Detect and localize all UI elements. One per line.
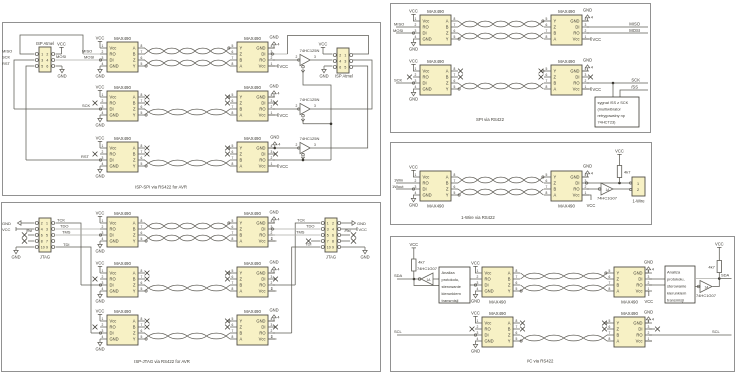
- no-connect J4.8: [28, 240, 34, 242]
- svg-text:Y: Y: [508, 289, 511, 294]
- IC U9 MAX490 (right-side transceiver): [542, 9, 589, 45]
- svg-text:B: B: [133, 152, 136, 157]
- svg-text:5: 5: [454, 85, 456, 89]
- svg-text:8: 8: [232, 162, 234, 166]
- svg-text:4: 4: [277, 91, 279, 95]
- svg-text:MAX490: MAX490: [114, 261, 131, 266]
- svg-text:Y: Y: [240, 221, 243, 226]
- no-connect U4.Z: [225, 101, 230, 106]
- svg-text:Vcc: Vcc: [259, 289, 266, 294]
- VCC symbol U12: [411, 170, 415, 177]
- ground (above right MAX490): [582, 70, 588, 72]
- ground above U23: [645, 272, 649, 274]
- svg-text:VCC: VCC: [280, 64, 289, 69]
- svg-text:5: 5: [46, 234, 48, 238]
- svg-text:2: 2: [415, 179, 417, 183]
- svg-text:GND: GND: [2, 221, 11, 226]
- junction SDA pull-up: [413, 278, 416, 281]
- IC U3 MAX490 (left-side transceiver): [100, 85, 147, 121]
- IC U23 MAX490 (right-side transceiver): [605, 267, 652, 305]
- wire SCK junction into note box: [612, 83, 614, 97]
- svg-text:SCL: SCL: [712, 329, 721, 334]
- svg-text:GND: GND: [269, 84, 278, 89]
- svg-text:4: 4: [277, 217, 279, 221]
- svg-text:GND: GND: [423, 193, 432, 198]
- svg-text:MISO: MISO: [394, 22, 404, 27]
- svg-text:3: 3: [271, 99, 273, 103]
- IC U5 MAX490 (left-side transceiver): [100, 136, 147, 172]
- ground at J2 pin6: [324, 65, 332, 67]
- svg-text:1: 1: [102, 317, 104, 321]
- ground (above right MAX490): [268, 320, 274, 322]
- wire box to U22.RO: [470, 278, 475, 280]
- svg-text:SCK: SCK: [631, 77, 640, 82]
- svg-text:1: 1: [271, 162, 273, 166]
- svg-text:RO: RO: [423, 75, 429, 80]
- svg-text:B: B: [240, 158, 243, 163]
- svg-text:/Rst: /Rst: [26, 229, 32, 233]
- svg-text:Y: Y: [133, 289, 136, 294]
- no-connect U6.Y: [225, 146, 230, 151]
- buffer U7C 74HC125N: [296, 136, 320, 156]
- svg-text:GND: GND: [570, 69, 579, 74]
- svg-text:7: 7: [454, 179, 456, 183]
- VCC tick at right MAX490 pin1: [268, 114, 278, 116]
- svg-text:5: 5: [232, 269, 234, 273]
- svg-text:MAX490: MAX490: [114, 85, 131, 90]
- svg-text:Vcc: Vcc: [110, 271, 117, 276]
- svg-text:TDO: TDO: [306, 223, 314, 228]
- VCC symbol above R1: [619, 161, 621, 166]
- svg-text:7: 7: [609, 281, 611, 285]
- svg-text:5: 5: [141, 287, 143, 291]
- svg-text:1: 1: [477, 269, 479, 273]
- svg-text:4: 4: [339, 60, 341, 64]
- svg-text:6: 6: [141, 329, 143, 333]
- svg-text:MAX490: MAX490: [244, 136, 261, 141]
- svg-text:8: 8: [141, 44, 143, 48]
- svg-text:VCC: VCC: [409, 9, 418, 14]
- VCC tick right chip: [582, 38, 591, 40]
- svg-text:GND: GND: [633, 271, 642, 276]
- wire TDI U20.RO to J5.9: [273, 332, 292, 334]
- svg-text:7: 7: [232, 281, 234, 285]
- svg-text:B: B: [554, 187, 557, 192]
- svg-text:GND: GND: [110, 64, 119, 69]
- svg-text:4: 4: [591, 171, 593, 175]
- buffer U21 74HC1G07: [417, 266, 438, 285]
- no-connect U26.DI: [649, 328, 655, 330]
- svg-text:VCC: VCC: [319, 42, 328, 47]
- svg-text:ISP-SPI via RS422 for AVR: ISP-SPI via RS422 for AVR: [135, 185, 187, 190]
- svg-text:1: 1: [648, 287, 650, 291]
- connector J4 JTAG 10-pin: [35, 218, 55, 252]
- VCC symbol: [411, 14, 415, 21]
- IC U25 MAX490 (left-side transceiver): [475, 311, 522, 347]
- IC U6 MAX490 (right-side transceiver): [228, 136, 275, 172]
- junction SDA right: [718, 277, 721, 280]
- svg-text:7: 7: [546, 29, 548, 33]
- svg-text:GND: GND: [269, 308, 278, 313]
- svg-text:4k7: 4k7: [708, 265, 715, 270]
- svg-text:GND: GND: [471, 349, 480, 354]
- svg-text:4: 4: [477, 337, 479, 341]
- svg-text:5: 5: [141, 237, 143, 241]
- svg-text:A: A: [133, 146, 136, 151]
- ground at J5 pin10: [341, 246, 365, 248]
- svg-text:1: 1: [344, 54, 346, 58]
- wire box to U22.DI: [470, 284, 475, 286]
- svg-text:GND: GND: [256, 319, 265, 324]
- svg-text:Y: Y: [133, 337, 136, 342]
- svg-text:2: 2: [102, 225, 104, 229]
- svg-text:4: 4: [102, 287, 104, 291]
- VCC symbol: [411, 64, 415, 71]
- svg-text:DI: DI: [423, 31, 427, 36]
- svg-text:A: A: [554, 37, 557, 42]
- junction on GND/buffer input net: [274, 147, 277, 150]
- svg-text:4: 4: [332, 228, 334, 232]
- svg-text:9: 9: [332, 246, 334, 250]
- svg-text:5: 5: [232, 317, 234, 321]
- svg-text:1-Wire via RS422: 1-Wire via RS422: [461, 215, 495, 220]
- svg-text:B: B: [240, 283, 243, 288]
- svg-text:DI: DI: [638, 277, 642, 282]
- svg-text:4: 4: [277, 315, 279, 319]
- wire MISO to U8.RO: [396, 26, 413, 28]
- svg-text:6: 6: [141, 105, 143, 109]
- svg-text:74HC125N: 74HC125N: [300, 136, 320, 141]
- svg-text:B: B: [508, 327, 511, 332]
- svg-text:A: A: [554, 87, 557, 92]
- svg-text:MOSI: MOSI: [393, 28, 403, 33]
- svg-text:1: 1: [46, 222, 48, 226]
- svg-text:2: 2: [415, 73, 417, 77]
- svg-text:6: 6: [232, 323, 234, 327]
- no-connect right chip DI: [273, 325, 278, 330]
- svg-text:1: 1: [102, 93, 104, 97]
- svg-text:GND: GND: [423, 87, 432, 92]
- svg-text:RO: RO: [573, 81, 579, 86]
- svg-text:4: 4: [102, 237, 104, 241]
- IC U13 MAX490 (right-side transceiver): [542, 171, 589, 209]
- svg-text:4: 4: [277, 42, 279, 46]
- svg-text:6: 6: [609, 275, 611, 279]
- svg-text:ISP-JTAG via RS422 for AVR: ISP-JTAG via RS422 for AVR: [134, 359, 190, 364]
- svg-text:sygnał /SS z SCK: sygnał /SS z SCK: [598, 100, 629, 105]
- svg-text:6: 6: [332, 234, 334, 238]
- wire SCL to U25.DI: [397, 334, 475, 336]
- wire SCK right U11.RO: [587, 82, 648, 84]
- svg-text:MAX490: MAX490: [621, 300, 638, 305]
- svg-text:4: 4: [102, 162, 104, 166]
- svg-text:1: 1: [477, 319, 479, 323]
- svg-text:GND: GND: [256, 95, 265, 100]
- svg-text:6: 6: [546, 73, 548, 77]
- svg-text:4: 4: [477, 287, 479, 291]
- svg-text:SCK: SCK: [82, 103, 91, 108]
- svg-text:B: B: [446, 75, 449, 80]
- svg-text:6: 6: [232, 150, 234, 154]
- svg-text:TCK: TCK: [57, 217, 65, 222]
- svg-text:1: 1: [415, 67, 417, 71]
- wire U23.DI to right box: [649, 278, 665, 280]
- IC U22 MAX490 (left-side transceiver): [475, 267, 522, 305]
- svg-text:A: A: [133, 46, 136, 51]
- wire MOSI J1.4 to U1.DI: [56, 59, 100, 61]
- svg-text:Vcc: Vcc: [636, 289, 643, 294]
- svg-text:10: 10: [41, 246, 45, 250]
- svg-text:Y: Y: [240, 319, 243, 324]
- no-connect right chip Y: [225, 319, 230, 324]
- svg-text:7: 7: [141, 323, 143, 327]
- svg-text:/SS: /SS: [631, 84, 638, 89]
- IC U16 MAX490 (right-side transceiver): [228, 211, 275, 247]
- panel: SPI via RS422 (border): [391, 4, 651, 133]
- svg-text:2: 2: [296, 104, 298, 108]
- svg-text:MAX490: MAX490: [427, 204, 444, 209]
- svg-text:TDO: TDO: [60, 223, 68, 228]
- wire MISO right U9.DI: [587, 26, 648, 28]
- svg-text:7: 7: [546, 79, 548, 83]
- svg-text:6: 6: [141, 281, 143, 285]
- connector J3 1-Wire: [629, 177, 645, 204]
- svg-text:Vcc: Vcc: [485, 321, 492, 326]
- svg-text:5: 5: [546, 173, 548, 177]
- no-connect left chip B: [145, 277, 150, 282]
- svg-text:8: 8: [232, 111, 234, 115]
- svg-text:MAX490: MAX490: [244, 261, 261, 266]
- svg-text:Y: Y: [508, 339, 511, 344]
- wire enable net U7C to U6.RO: [302, 157, 304, 160]
- svg-text:Y: Y: [617, 321, 620, 326]
- svg-text:Vcc: Vcc: [573, 87, 580, 92]
- svg-text:3: 3: [477, 331, 479, 335]
- IC U1 MAX490 (left-side transceiver): [100, 36, 147, 72]
- svg-text:DI: DI: [110, 331, 114, 336]
- svg-text:DI: DI: [261, 277, 265, 282]
- svg-text:4: 4: [102, 62, 104, 66]
- note box: /SS generation: [595, 97, 639, 127]
- svg-text:8: 8: [516, 319, 518, 323]
- svg-text:RO: RO: [259, 58, 265, 63]
- svg-text:6: 6: [141, 156, 143, 160]
- wire TDI J4.9 to U19.DI: [56, 247, 91, 333]
- no-connect U25.RO: [470, 327, 475, 332]
- svg-text:A: A: [133, 221, 136, 226]
- svg-text:VCC: VCC: [593, 87, 602, 92]
- svg-text:5: 5: [41, 65, 43, 69]
- svg-text:7: 7: [46, 240, 48, 244]
- svg-text:2: 2: [41, 222, 43, 226]
- svg-text:MAX490: MAX490: [244, 309, 261, 314]
- VCC symbol at J2 pin2: [323, 53, 332, 55]
- svg-text:RO: RO: [110, 325, 116, 330]
- svg-text:B: B: [240, 58, 243, 63]
- svg-text:2: 2: [585, 185, 587, 189]
- svg-text:DI: DI: [575, 181, 579, 186]
- svg-text:8: 8: [454, 17, 456, 21]
- ground: [98, 66, 102, 73]
- svg-text:8: 8: [609, 337, 611, 341]
- svg-text:SPI via RS422: SPI via RS422: [476, 117, 505, 122]
- svg-text:MAX490: MAX490: [114, 36, 131, 41]
- svg-text:1-Wire: 1-Wire: [632, 199, 645, 204]
- svg-text:7: 7: [232, 329, 234, 333]
- svg-text:Vcc: Vcc: [573, 37, 580, 42]
- svg-text:(multiwibrator: (multiwibrator: [598, 106, 622, 111]
- svg-text:GND: GND: [95, 174, 104, 179]
- svg-text:MAX490: MAX490: [621, 311, 638, 316]
- connector J2 ISP Atmel 6-pin: [333, 48, 353, 73]
- svg-text:A: A: [446, 175, 449, 180]
- svg-text:kierunkiem: kierunkiem: [442, 291, 462, 296]
- wire TMS U16.RO to J5.5: [273, 234, 321, 236]
- wire MISO loop J1.1 to U1.RO: [20, 35, 83, 54]
- svg-text:DI: DI: [261, 325, 265, 330]
- svg-text:3: 3: [344, 60, 346, 64]
- svg-text:Vcc: Vcc: [259, 164, 266, 169]
- svg-text:8: 8: [141, 219, 143, 223]
- ground above U13: [582, 176, 588, 178]
- svg-text:VCC: VCC: [96, 85, 105, 90]
- wire MOSI right U9.RO: [587, 32, 648, 34]
- no-connect U10.B: [458, 75, 463, 80]
- svg-text:A: A: [617, 339, 620, 344]
- svg-text:1: 1: [271, 334, 273, 338]
- svg-text:GND: GND: [269, 260, 278, 265]
- svg-text:B: B: [617, 333, 620, 338]
- svg-text:8: 8: [232, 237, 234, 241]
- connector J5 JTAG 10-pin: [321, 218, 341, 252]
- svg-text:TDI: TDI: [305, 241, 311, 246]
- svg-text:MAX490: MAX490: [244, 36, 261, 41]
- no-connect U3.B: [145, 101, 150, 106]
- svg-text:SCL: SCL: [394, 329, 403, 334]
- svg-text:RO: RO: [110, 227, 116, 232]
- box: protocol analysis / direction control (left): [439, 267, 470, 303]
- no-connect right chip Z: [225, 277, 230, 282]
- svg-text:4: 4: [271, 144, 273, 148]
- svg-text:2: 2: [271, 156, 273, 160]
- svg-text:1Win: 1Win: [394, 178, 403, 183]
- svg-text:protokołu,: protokołu,: [667, 277, 685, 282]
- IC U26 MAX490 (right-side transceiver): [605, 311, 652, 347]
- buffer U14 74HC1G07: [597, 183, 618, 201]
- wire box to buffer U24 input: [695, 286, 700, 288]
- svg-text:5: 5: [327, 234, 329, 238]
- svg-text:sterowanie: sterowanie: [442, 284, 462, 289]
- wire TDO U16.DI to J5.3: [272, 228, 320, 230]
- no-connect U26.Y: [602, 321, 607, 326]
- svg-text:MAX490: MAX490: [114, 136, 131, 141]
- ground arrow at J4 pin2: [21, 222, 34, 224]
- no-connect U4.DI: [273, 101, 278, 106]
- VCC above R2: [413, 255, 415, 260]
- twisted pair U17 Z/Y - U18 B/A: [145, 285, 231, 291]
- svg-text:8: 8: [454, 67, 456, 71]
- svg-text:5: 5: [454, 35, 456, 39]
- svg-text:3: 3: [585, 73, 587, 77]
- svg-text:VCC: VCC: [2, 227, 11, 232]
- svg-text:RO: RO: [573, 187, 579, 192]
- svg-text:Vcc: Vcc: [259, 113, 266, 118]
- ground (above right MAX490): [268, 147, 275, 149]
- svg-text:2: 2: [296, 143, 298, 147]
- buffer U7A 74HC125N: [296, 48, 320, 68]
- svg-text:GND: GND: [57, 74, 66, 79]
- svg-text:GND: GND: [633, 321, 642, 326]
- wire enable net U7A: [303, 69, 331, 160]
- VCC tick at right MAX490 pin1: [268, 65, 278, 67]
- svg-text:GND: GND: [110, 164, 119, 169]
- wire U23.RO to right box: [649, 284, 665, 286]
- IC U4 MAX490 (right-side transceiver): [228, 85, 275, 121]
- svg-text:8: 8: [516, 269, 518, 273]
- wire SDA right: [719, 278, 731, 280]
- svg-text:4: 4: [277, 267, 279, 271]
- buffer U24 74HC1G07: [696, 281, 717, 299]
- svg-text:1: 1: [585, 85, 587, 89]
- wire U4.RO to buffer U7B input: [273, 108, 299, 110]
- svg-text:3: 3: [271, 323, 273, 327]
- svg-text:7: 7: [232, 231, 234, 235]
- VCC tick right chip: [582, 88, 591, 90]
- svg-text:6: 6: [141, 231, 143, 235]
- wire SDA sense into box: [414, 279, 439, 286]
- svg-text:2: 2: [648, 281, 650, 285]
- VCC symbol: [98, 266, 102, 273]
- svg-text:Analiza: Analiza: [667, 270, 681, 275]
- svg-text:2: 2: [271, 329, 273, 333]
- svg-text:1: 1: [271, 236, 273, 240]
- svg-text:7: 7: [327, 240, 329, 244]
- svg-text:4: 4: [415, 85, 417, 89]
- svg-text:7: 7: [546, 185, 548, 189]
- ground: [411, 89, 415, 96]
- no-connect left chip A: [145, 319, 150, 324]
- svg-text:7: 7: [609, 331, 611, 335]
- junction U7C enable on RO line: [302, 159, 305, 162]
- svg-text:Vcc: Vcc: [110, 319, 117, 324]
- twisted pair U5 Z/Y to U6 B/A: [145, 160, 231, 166]
- svg-text:transmisji: transmisji: [442, 298, 459, 303]
- twisted pair U8 Z/Y to U9 B/A: [458, 33, 544, 39]
- svg-text:GND: GND: [319, 74, 328, 79]
- svg-text:74HC1G07: 74HC1G07: [696, 293, 717, 298]
- svg-text:GND: GND: [409, 203, 418, 208]
- ground U25: [473, 341, 477, 348]
- svg-text:VCC: VCC: [409, 242, 418, 247]
- svg-text:A: A: [240, 337, 243, 342]
- svg-text:B: B: [133, 227, 136, 232]
- svg-text:7: 7: [141, 99, 143, 103]
- svg-text:MOSI: MOSI: [56, 54, 66, 59]
- svg-text:MAX490: MAX490: [489, 311, 506, 316]
- svg-text:3: 3: [271, 150, 273, 154]
- buffer U7B 74HC125N: [296, 97, 320, 117]
- svg-text:B: B: [240, 107, 243, 112]
- svg-text:MAX490: MAX490: [558, 204, 575, 209]
- svg-text:6: 6: [609, 325, 611, 329]
- svg-text:2: 2: [271, 56, 273, 60]
- svg-text:2: 2: [271, 231, 273, 235]
- svg-text:8: 8: [546, 191, 548, 195]
- svg-text:GND: GND: [357, 221, 366, 226]
- no-connect U5.A: [145, 146, 150, 151]
- svg-text:Vcc: Vcc: [636, 339, 643, 344]
- svg-text:B: B: [508, 277, 511, 282]
